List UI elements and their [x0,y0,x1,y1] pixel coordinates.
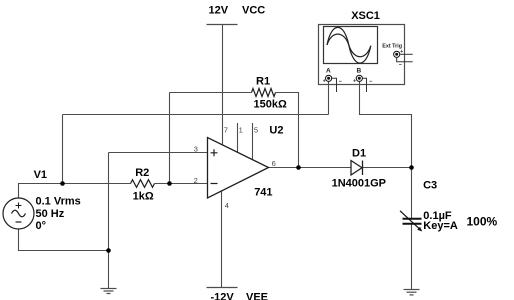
wire V1 top lead to node A [19,184,63,199]
svg-text:VEE: VEE [246,291,268,300]
wire C3 bottom plate to ground [411,225,413,290]
oscilloscope trace 1 [327,27,371,63]
svg-text:V1: V1 [34,169,47,181]
svg-text:R2: R2 [135,167,149,179]
Ext Trig terminal [394,51,400,57]
wire R1 right down to output [276,93,299,168]
svg-text:1kΩ: 1kΩ [133,191,154,203]
scope channel B hook [363,78,367,92]
diode D1 cathode bar [362,161,364,176]
svg-text:7: 7 [224,126,228,135]
svg-text:12V: 12V [209,5,229,17]
junction inverting node [167,181,172,186]
svg-text:C3: C3 [423,179,437,191]
svg-text:XSC1: XSC1 [351,10,380,22]
wire node A up to channel-A run [62,115,64,184]
svg-text:A: A [326,68,331,75]
diode D1 [351,161,362,176]
wire input node to scope channel A [63,114,329,116]
node VCC rail symbol [207,24,238,26]
svg-text:0°: 0° [36,220,47,232]
source V1 plus mark [16,203,22,209]
op-amp minus input mark [211,183,218,185]
svg-text:-12V: -12V [211,291,235,300]
svg-text:−: − [339,79,342,85]
ground (right) [404,290,420,295]
svg-text:1: 1 [239,126,243,135]
source V1 sine mark [12,210,26,217]
svg-text:U2: U2 [269,124,283,136]
op-amp U2 triangle [208,138,269,199]
wire D1 cathode to node C [363,167,412,169]
svg-text:+: + [323,79,326,85]
svg-text:−: − [369,79,372,85]
op-amp U1 pin 5 stub [252,123,254,160]
scope channel A terminal [326,75,332,81]
oscilloscope trace 2 [327,34,371,57]
source V1 circle [3,198,34,229]
svg-text:150kΩ: 150kΩ [254,98,287,110]
wire op-amp output to D1 [268,167,351,169]
svg-text:5: 5 [254,126,258,135]
wire R2 right to op-amp pin 2 [155,183,208,185]
resistor R1 [252,89,276,97]
wire op-amp pin 4 to VEE [221,190,223,287]
wire node C to C3 top plate [411,168,413,219]
wire scope A drop [328,81,330,115]
node VEE rail symbol [207,287,238,289]
svg-text:D1: D1 [352,148,366,160]
wire V1 bottom lead to ground node [19,229,109,251]
wire ground node to op-amp pin 3 [109,152,208,154]
svg-text:6: 6 [272,159,276,168]
capacitor C3 top plate [403,218,422,220]
wire scope B drop to node C [360,81,412,168]
junction node C (D1/C3/B) [409,165,414,170]
svg-text:2: 2 [194,176,198,185]
op-amp U1 pin 1 stub [237,123,239,152]
svg-text:4: 4 [225,201,229,210]
wire node A to R2 left [63,183,131,185]
op-amp plus input mark [211,149,218,156]
source V1 minus mark [16,221,22,223]
wire inverting node up to feedback [169,93,171,184]
svg-text:3: 3 [194,145,198,154]
svg-text:100%: 100% [467,214,498,228]
Ext Trig stub top [400,53,413,55]
wire pin-3 node down to ground [108,153,110,289]
scope channel B terminal [356,75,362,81]
wire feedback left to R1 [170,92,252,94]
oscilloscope screen [324,27,378,64]
capacitor C3 bottom plate [403,223,422,225]
scope channel A hook [332,78,337,92]
svg-text:R1: R1 [256,75,270,87]
junction output node [296,165,301,170]
oscilloscope XSC1 body [319,25,405,85]
resistor R2 [131,180,155,188]
svg-text:Key=A: Key=A [423,220,458,232]
svg-text:B: B [357,68,362,75]
wire VCC to op-amp pin 7 [222,25,224,146]
svg-text:1N4001GP: 1N4001GP [332,178,386,190]
svg-text:741: 741 [254,186,272,198]
junction ground node [106,248,111,253]
svg-text:+: + [353,79,356,85]
svg-text:Ext Trig: Ext Trig [382,44,402,50]
svg-text:−: − [399,63,402,69]
capacitor C3 arrow [400,211,421,230]
svg-text:VCC: VCC [242,5,265,17]
svg-text:0.1 Vrms: 0.1 Vrms [36,195,81,207]
junction input node A [60,181,65,186]
svg-text:50 Hz: 50 Hz [36,208,65,220]
Ext Trig stub bottom [397,58,413,62]
ground (left) [101,289,117,294]
